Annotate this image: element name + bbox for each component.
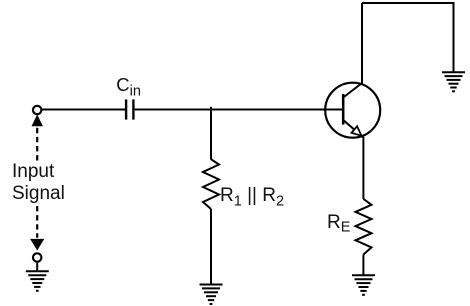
capacitor C_in left plate xyxy=(125,99,127,119)
svg-text:Input: Input xyxy=(12,161,55,182)
ground (below R1||R2) xyxy=(200,285,223,305)
transistor base bar xyxy=(342,94,345,125)
svg-text:R1 || R2: R1 || R2 xyxy=(220,185,284,210)
wire: terminal to ground xyxy=(36,262,38,271)
input signal dashed line (upper) xyxy=(36,128,38,162)
input terminal (top) open circle xyxy=(33,106,41,114)
resistor RE (zigzag) xyxy=(356,199,372,255)
node: junction of input wire and R1||R2 branch xyxy=(210,107,212,160)
wire: RE to ground xyxy=(362,255,364,276)
svg-text:Signal: Signal xyxy=(12,183,65,204)
ground (below RE) xyxy=(352,275,375,295)
input signal dashed line (lower) xyxy=(36,206,38,238)
ground (input, bottom left) xyxy=(26,271,49,291)
transistor emitter segment xyxy=(343,120,363,199)
transistor emitter arrowhead xyxy=(352,126,362,136)
ground (top right) xyxy=(442,72,465,91)
wire: input terminal to capacitor left plate xyxy=(42,109,125,111)
input ground terminal open circle xyxy=(33,253,41,261)
wire: top rail from collector to right drop xyxy=(362,3,454,72)
input signal lower arrowhead (pointing down) xyxy=(31,239,43,249)
transistor Q1 (NPN) circle xyxy=(325,83,380,138)
resistor R1 || R2 (zigzag) xyxy=(203,159,219,209)
wire: capacitor right plate to transistor base bar xyxy=(135,109,344,111)
capacitor C_in right plate xyxy=(132,99,134,119)
wire: R1||R2 to ground xyxy=(210,209,212,284)
transistor collector segment xyxy=(343,3,362,98)
input signal upper arrowhead (pointing up at terminal) xyxy=(32,116,42,126)
